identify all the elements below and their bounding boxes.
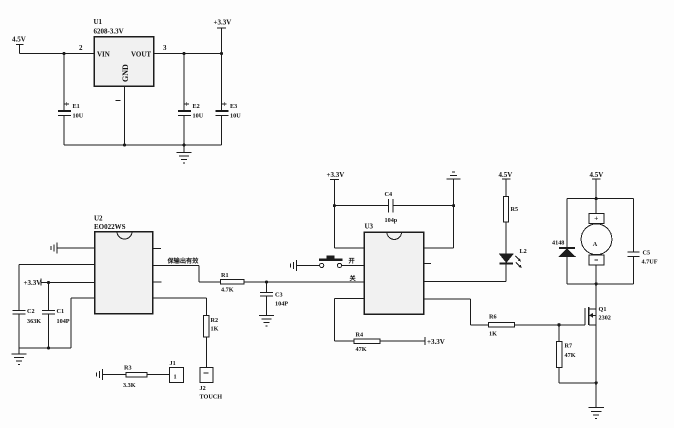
- wire Q1 source to ground: [595, 325, 597, 407]
- svg-text:J2: J2: [200, 385, 206, 392]
- svg-text:1K: 1K: [489, 331, 497, 338]
- junction motor top: [595, 197, 598, 200]
- svg-text:Q1: Q1: [599, 306, 607, 313]
- capacitor C2: [13, 308, 42, 348]
- svg-text:+3.3V: +3.3V: [24, 279, 42, 287]
- junction source: [595, 381, 598, 384]
- svg-text:R1: R1: [221, 272, 229, 279]
- svg-text:1: 1: [174, 374, 177, 381]
- svg-text:C4: C4: [385, 191, 393, 198]
- motor M (A): [581, 199, 612, 284]
- wire R1 to U3: [244, 281, 364, 283]
- svg-text:A: A: [593, 241, 598, 248]
- svg-text:TOUCH: TOUCH: [200, 394, 223, 401]
- chip U3: [364, 223, 424, 315]
- power +3.3V (U2, horizontal): [24, 279, 42, 288]
- LED L2: [500, 248, 527, 268]
- svg-text:+3.3V: +3.3V: [214, 19, 232, 27]
- wire U3 pin to LED cathode: [424, 280, 507, 282]
- wire U2 pin 7 output to R1: [153, 266, 221, 283]
- wire U1 GND to ground rail: [124, 86, 126, 145]
- junction C1 tap: [47, 281, 50, 284]
- svg-text:E1: E1: [73, 103, 80, 110]
- junction ground tap on rail: [182, 143, 185, 146]
- connector J2 (TOUCH): [200, 368, 223, 401]
- wire R5 to LED: [505, 222, 507, 254]
- junction C1 on rail: [47, 346, 50, 349]
- svg-text:R2: R2: [211, 317, 219, 324]
- capacitor C1: [42, 283, 70, 349]
- svg-text:C1: C1: [57, 308, 65, 315]
- wire U1 VOUT to +3.3V rail: [154, 53, 222, 55]
- wire +3.3V line to U3 pin 1: [334, 206, 364, 248]
- svg-text:C3: C3: [275, 292, 283, 299]
- svg-text:E3: E3: [230, 103, 237, 110]
- resistor R3: [103, 365, 147, 390]
- svg-text:保输出有效: 保输出有效: [167, 257, 200, 265]
- diode D1 4148: [552, 240, 575, 257]
- svg-text:+3.3V: +3.3V: [327, 171, 345, 179]
- junction R7 tap: [557, 323, 560, 326]
- svg-text:R7: R7: [565, 343, 573, 350]
- svg-text:10U: 10U: [193, 113, 204, 120]
- ground (U2 pin 1, rotated): [51, 243, 58, 254]
- wire R7 top: [558, 325, 560, 342]
- svg-text:4.5V: 4.5V: [590, 171, 604, 179]
- svg-text:4.7K: 4.7K: [221, 287, 234, 294]
- svg-text:10U: 10U: [230, 113, 241, 120]
- svg-text:R6: R6: [489, 314, 497, 321]
- svg-text:104p: 104p: [385, 217, 398, 224]
- wire U3 right pin to GND line: [424, 206, 454, 248]
- ground (U2 section): [12, 348, 27, 365]
- wire 4.5V to U1 VIN: [20, 53, 95, 55]
- chip U2: [94, 215, 153, 314]
- ground (above C4, inverted): [447, 172, 461, 206]
- wire R7 to source: [559, 367, 596, 383]
- wire U2 pin 6 stub: [153, 281, 162, 283]
- wire motor bottom rail: [567, 283, 634, 285]
- svg-text:2302: 2302: [599, 315, 611, 322]
- svg-text:1K: 1K: [211, 326, 219, 333]
- svg-text:363K: 363K: [27, 318, 41, 325]
- wire C5 branch: [633, 199, 635, 253]
- svg-text:2: 2: [79, 44, 83, 52]
- ground (R3, rotated): [97, 369, 104, 380]
- junction GND line: [452, 204, 455, 207]
- svg-text:4.5V: 4.5V: [499, 171, 513, 179]
- svg-text:3: 3: [163, 44, 167, 52]
- svg-text:E2: E2: [193, 103, 200, 110]
- svg-text:VIN: VIN: [97, 51, 110, 59]
- pin number 1 (U1 GND, rotated): [116, 100, 121, 102]
- svg-text:47K: 47K: [565, 352, 576, 359]
- resistor R2: [204, 316, 219, 338]
- junction +3.3V / E3: [220, 52, 223, 55]
- resistor R5: [504, 197, 518, 223]
- capacitor C5: [628, 250, 658, 266]
- wire U2 pin 8 stub: [153, 248, 162, 250]
- wire U3 pin to R6: [424, 299, 489, 325]
- svg-text:GND: GND: [121, 64, 130, 82]
- power 4.5V (R5): [499, 171, 513, 197]
- svg-text:10U: 10U: [73, 113, 84, 120]
- wire U2 pin 2 to C2: [19, 265, 95, 311]
- power 4.5V (motor): [590, 171, 604, 199]
- junction E1 tap: [62, 52, 65, 55]
- svg-text:J1: J1: [170, 360, 176, 367]
- resistor R4: [354, 332, 380, 354]
- wire C4 to ground: [393, 205, 454, 207]
- wire diode branch (anode): [566, 199, 568, 248]
- svg-text:开: 开: [349, 257, 356, 265]
- svg-text:4.5V: 4.5V: [12, 36, 26, 44]
- svg-text:R4: R4: [356, 332, 364, 339]
- svg-text:R5: R5: [511, 206, 519, 213]
- ground (Q1 source): [589, 408, 605, 419]
- svg-text:104P: 104P: [57, 318, 70, 325]
- svg-text:U2: U2: [94, 215, 103, 223]
- svg-text:3.3K: 3.3K: [123, 382, 136, 389]
- resistor R7: [557, 341, 576, 367]
- svg-text:+3.3V: +3.3V: [427, 338, 445, 346]
- wire U3 pin 4 to R4: [334, 299, 364, 341]
- power +3.3V (R4, horizontal): [425, 337, 445, 346]
- push button S1: [319, 256, 342, 268]
- svg-text:4148: 4148: [552, 240, 564, 247]
- svg-text:L2: L2: [520, 248, 527, 255]
- wire motor top rail: [567, 198, 634, 200]
- svg-text:104P: 104P: [275, 301, 288, 308]
- wire U2 pin 5 to R2: [153, 298, 207, 316]
- wire U2 pin 4 down-left: [71, 298, 95, 348]
- power +3.3V (U3 top): [327, 171, 345, 206]
- wire +3.3V to C4: [334, 205, 388, 207]
- svg-text:C5: C5: [643, 250, 651, 257]
- capacitor E1: [58, 54, 84, 146]
- power +3.3V (top): [214, 19, 232, 54]
- svg-text:EO022WS: EO022WS: [94, 223, 126, 231]
- junction +3.3V / C4: [333, 204, 336, 207]
- svg-text:C2: C2: [27, 308, 35, 315]
- capacitor C3: [260, 282, 288, 316]
- wire R2 to J2: [205, 337, 207, 368]
- wire ground to button: [297, 264, 320, 266]
- svg-text:U3: U3: [365, 223, 374, 231]
- wire R3 to J1: [147, 374, 170, 376]
- wire C5 to bottom rail: [633, 256, 635, 284]
- junction motor bottom: [595, 282, 598, 285]
- wire motor to Q1 drain: [595, 284, 597, 309]
- wire button to U3 pin 2: [342, 264, 364, 266]
- wire +3.3V to U2 pin 3: [41, 282, 95, 284]
- power 4.5V (left): [12, 36, 26, 54]
- resistor R1: [221, 272, 245, 294]
- junction C3 tap: [265, 280, 268, 283]
- wire LED to U3 pin wire: [505, 263, 507, 281]
- connector J1: [170, 360, 184, 383]
- chip U1: [94, 18, 154, 86]
- wire ground rail (U2 section): [19, 347, 71, 349]
- wire ground to U2 pin 1: [58, 247, 95, 249]
- ground (C3): [259, 316, 274, 327]
- capacitor C4: [385, 191, 398, 224]
- ground (push button, rotated): [291, 260, 298, 271]
- svg-text:4.7UF: 4.7UF: [642, 259, 658, 266]
- capacitor E3: [216, 54, 242, 146]
- wire ground rail (U1 section): [64, 144, 222, 146]
- svg-text:VOUT: VOUT: [131, 51, 151, 59]
- svg-text:47K: 47K: [356, 346, 367, 353]
- ground (U1 section): [177, 145, 192, 163]
- wire R6 to Q1 gate: [515, 324, 586, 326]
- transistor Q1 (MOSFET 2302): [585, 306, 611, 325]
- junction GND pin on rail: [123, 143, 126, 146]
- svg-text:R3: R3: [124, 365, 132, 372]
- wire diode cathode to bottom rail: [566, 257, 568, 284]
- capacitor E2: [178, 54, 204, 146]
- svg-text:U1: U1: [94, 18, 103, 26]
- svg-text:6208-3.3V: 6208-3.3V: [94, 28, 124, 36]
- wire U3 pin stub (right): [424, 262, 432, 264]
- wire R4 to +3.3V: [380, 340, 425, 342]
- junction E2 tap: [182, 52, 185, 55]
- resistor R6: [489, 314, 515, 338]
- svg-text:关: 关: [350, 275, 357, 283]
